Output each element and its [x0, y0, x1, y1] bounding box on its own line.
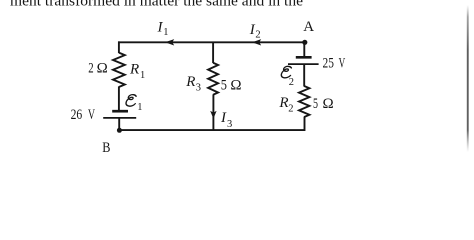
arrow I2 (left, on top bus): [252, 39, 261, 45]
wire: R2 to bottom bus: [304, 117, 306, 131]
svg-text:2: 2: [288, 104, 293, 115]
svg-text:R: R: [129, 62, 139, 78]
emf symbol E2 (script E): [281, 66, 292, 77]
battery E2 short plate (top): [296, 56, 312, 59]
node B (junction dot): [117, 128, 122, 133]
svg-text:V: V: [339, 55, 346, 71]
page edge rule (right): [467, 5, 469, 152]
svg-text:ment transformed in matter the: ment transformed in matter the same and …: [10, 0, 303, 9]
svg-text:I: I: [220, 110, 227, 126]
svg-text:Ω: Ω: [323, 96, 334, 112]
wire: R1 to battery E1: [118, 87, 120, 112]
emf symbol E1 (script E): [126, 95, 137, 106]
wire: top bus from left corner to node A: [118, 41, 305, 43]
svg-text:2: 2: [255, 29, 260, 40]
svg-text:1: 1: [163, 27, 168, 38]
node A (junction dot): [302, 40, 307, 45]
svg-text:5: 5: [313, 96, 318, 112]
svg-text:3: 3: [227, 119, 232, 130]
svg-text:R: R: [185, 74, 195, 90]
wire: R3 to bottom bus: [212, 94, 214, 130]
svg-text:5: 5: [221, 77, 227, 93]
svg-text:B: B: [102, 140, 110, 156]
svg-text:3: 3: [196, 83, 201, 94]
arrow I3 (down, on middle branch): [210, 111, 216, 119]
battery E1 short plate (top): [112, 110, 128, 113]
svg-text:25: 25: [323, 55, 334, 71]
wire: battery E2 to R2: [303, 64, 305, 86]
svg-text:Ω: Ω: [97, 60, 108, 76]
svg-text:Ω: Ω: [230, 77, 241, 93]
battery E1 long plate (bottom): [103, 117, 136, 119]
svg-text:R: R: [278, 95, 288, 111]
wire: bottom bus from node B to right branch: [119, 129, 304, 131]
svg-text:26: 26: [71, 107, 83, 123]
wire: left branch top (corner down to R1): [118, 41, 120, 53]
wire: middle branch top (bus down to R3): [212, 42, 214, 63]
svg-text:1: 1: [140, 70, 145, 81]
resistor R2 (zigzag): [299, 86, 309, 117]
svg-text:V: V: [88, 107, 95, 123]
resistor R1 (zigzag): [113, 53, 125, 87]
svg-text:1: 1: [137, 102, 142, 113]
wire: node A down to battery E2: [303, 42, 305, 57]
resistor R3 (zigzag): [208, 63, 218, 95]
battery E2 long plate (bottom): [288, 63, 319, 65]
wire: battery E1 to node B: [118, 118, 120, 130]
svg-text:2: 2: [289, 77, 294, 88]
svg-text:2: 2: [88, 60, 93, 76]
arrow I1 (left, on top bus): [165, 39, 174, 45]
svg-text:A: A: [303, 19, 314, 35]
